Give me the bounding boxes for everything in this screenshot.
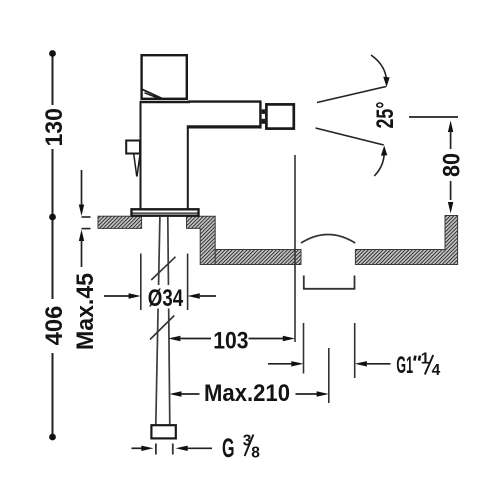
svg-text:G: G — [222, 433, 235, 463]
svg-text:G1: G1 — [396, 352, 413, 379]
svg-text:8: 8 — [251, 445, 260, 462]
svg-text:103: 103 — [213, 328, 248, 355]
svg-text:4: 4 — [432, 362, 441, 379]
svg-text:Ø34: Ø34 — [148, 285, 184, 312]
svg-text:130: 130 — [41, 108, 68, 147]
svg-text:25°: 25° — [372, 102, 399, 129]
svg-text:Max.210: Max.210 — [204, 380, 290, 407]
svg-text:406: 406 — [41, 306, 68, 346]
svg-text:80: 80 — [439, 153, 466, 177]
svg-text:Max.45: Max.45 — [72, 273, 99, 350]
